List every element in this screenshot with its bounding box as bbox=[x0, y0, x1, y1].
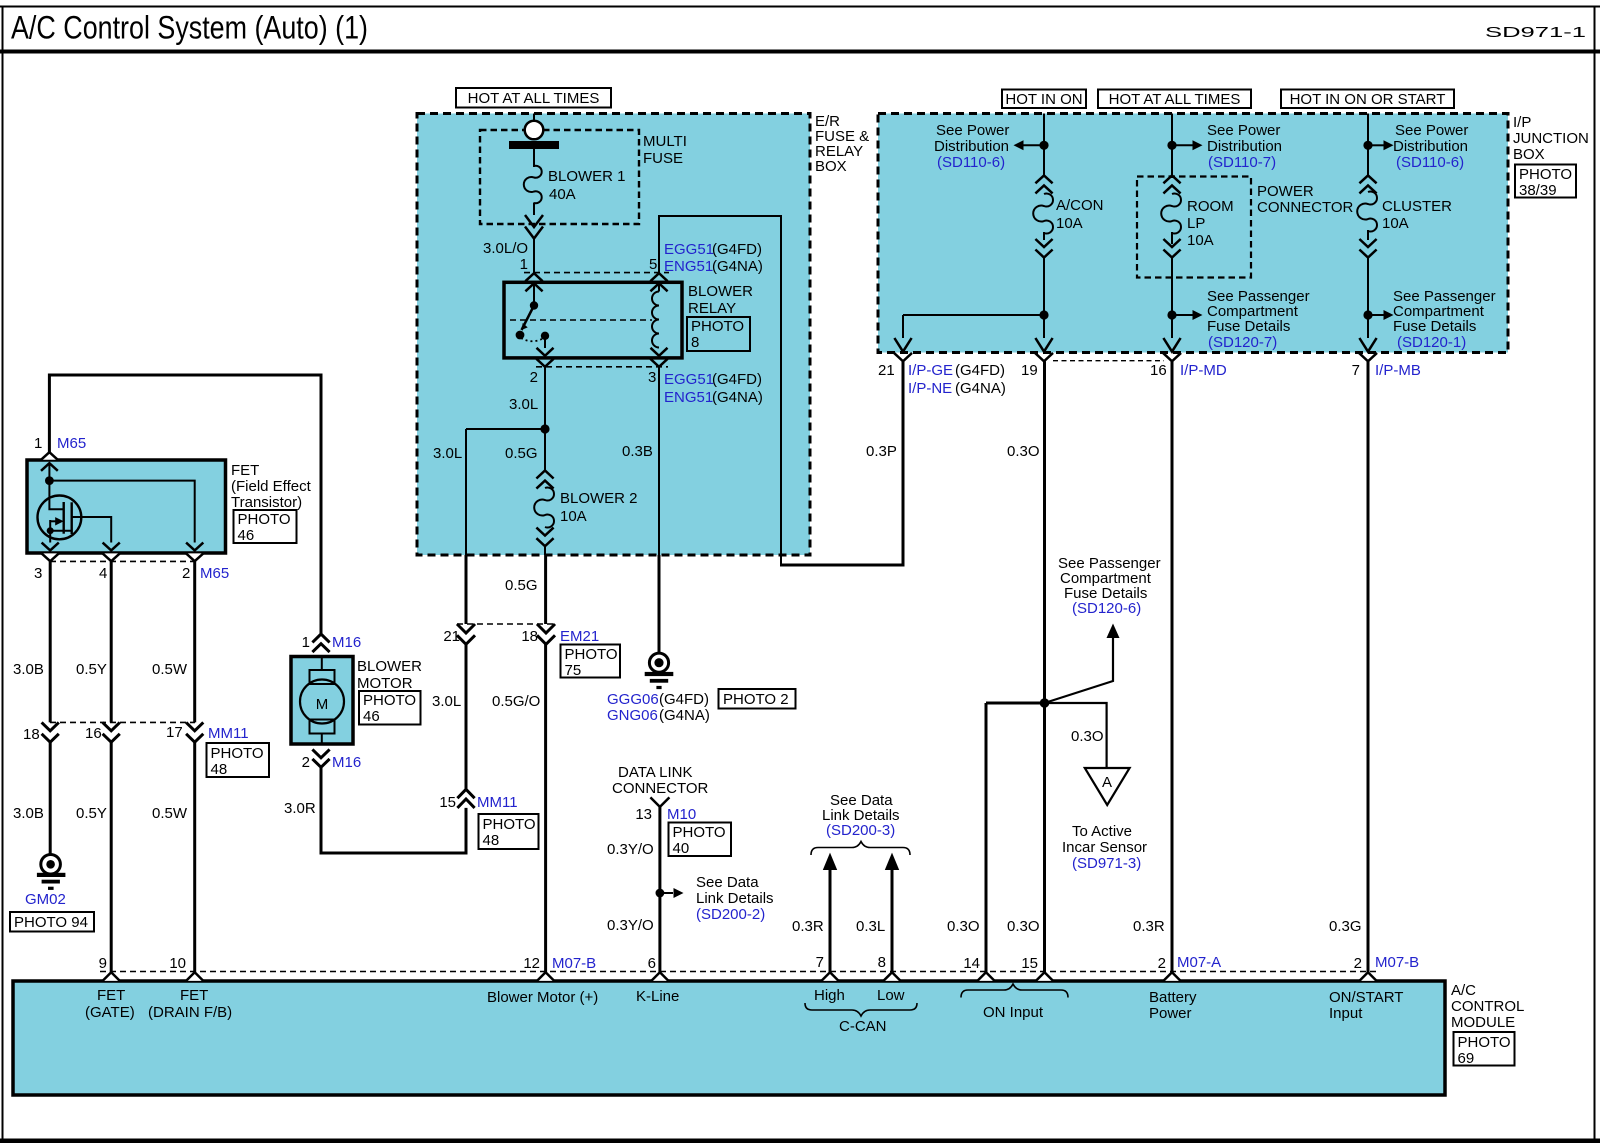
module connector dashed line bbox=[100, 971, 1378, 973]
branch wire to 3.0L left bbox=[466, 429, 545, 555]
wire source to pin 3 bbox=[49, 531, 51, 543]
svg-text:Distribution: Distribution bbox=[1393, 138, 1468, 155]
svg-text:FUSE: FUSE bbox=[643, 150, 683, 167]
svg-text:3: 3 bbox=[34, 565, 42, 582]
svg-text:BLOWER 1: BLOWER 1 bbox=[548, 168, 626, 185]
svg-text:Input: Input bbox=[1329, 1005, 1363, 1022]
wire 0.5Y upper bbox=[110, 561, 113, 722]
CLUSTER 10A label bbox=[1382, 198, 1452, 232]
svg-text:MM11: MM11 bbox=[477, 794, 518, 811]
svg-text:13: 13 bbox=[635, 806, 652, 823]
junction dot SD120-7 branch bbox=[1167, 310, 1176, 319]
wire on/start down bbox=[1367, 361, 1370, 972]
svg-text:Battery: Battery bbox=[1149, 989, 1197, 1006]
relay switch output arrowhead bbox=[537, 348, 554, 356]
svg-text:High: High bbox=[814, 987, 845, 1004]
svg-text:3.0L/O: 3.0L/O bbox=[483, 240, 528, 257]
relay switch common lead bbox=[533, 284, 535, 302]
relay pin 5 chevrons bbox=[650, 273, 667, 291]
connector 18 chevrons bbox=[42, 722, 59, 742]
gate feedback wire to pin 2 bbox=[49, 481, 194, 543]
svg-text:3.0R: 3.0R bbox=[284, 800, 316, 817]
PHOTO 75 box bbox=[561, 645, 621, 680]
svg-text:To Active: To Active bbox=[1072, 823, 1132, 840]
svg-text:0.3B: 0.3B bbox=[622, 443, 653, 460]
wire arrow to relay pin 1 bbox=[533, 239, 535, 274]
BLOWER 1 40A label bbox=[548, 168, 626, 203]
wire fuse to arrow bbox=[533, 203, 535, 216]
wire 3.0L between connectors bbox=[465, 644, 468, 789]
ground GGG06/GNG06 bbox=[645, 653, 674, 689]
mosfet channel bar bbox=[70, 502, 72, 534]
module pin 10 tent bbox=[186, 972, 203, 981]
wire 3.0B upper bbox=[49, 561, 52, 722]
svg-text:PHOTO: PHOTO bbox=[673, 824, 726, 841]
PHOTO 40 box bbox=[669, 823, 732, 858]
mosfet gate lead bbox=[49, 481, 63, 510]
svg-text:CLUSTER: CLUSTER bbox=[1382, 198, 1452, 215]
svg-text:CONTROL: CONTROL bbox=[1451, 998, 1524, 1015]
HOT AT ALL TIMES label box bbox=[456, 88, 611, 108]
svg-text:16: 16 bbox=[1150, 362, 1167, 379]
svg-text:3.0L: 3.0L bbox=[433, 445, 462, 462]
svg-text:Distribution: Distribution bbox=[1207, 138, 1282, 155]
svg-text:0.5G: 0.5G bbox=[505, 577, 538, 594]
svg-text:0.3Y/O: 0.3Y/O bbox=[607, 917, 654, 934]
wire bar to fuse coil bbox=[533, 149, 535, 167]
svg-text:2: 2 bbox=[1158, 955, 1166, 972]
connector 17 chevrons MM11 bbox=[186, 722, 203, 742]
wire relay pin2 down bbox=[544, 367, 546, 471]
svg-text:(SD110-7): (SD110-7) bbox=[1208, 154, 1276, 171]
svg-text:HOT AT ALL TIMES: HOT AT ALL TIMES bbox=[1109, 91, 1241, 108]
svg-text:BLOWER 2: BLOWER 2 bbox=[560, 490, 638, 507]
PHOTO 2 box bbox=[719, 689, 796, 709]
Battery Power label bbox=[1149, 989, 1197, 1022]
svg-text:Power: Power bbox=[1149, 1005, 1192, 1022]
svg-text:(G4NA): (G4NA) bbox=[659, 707, 710, 724]
fuse A/CON 10A coil bbox=[1033, 194, 1053, 234]
See Passenger Compartment SD120-1 label bbox=[1393, 288, 1496, 351]
I/P wire CLUSTER from top bbox=[1367, 114, 1369, 176]
svg-text:M16: M16 bbox=[332, 634, 361, 651]
svg-text:1: 1 bbox=[302, 634, 310, 651]
svg-text:MOTOR: MOTOR bbox=[357, 675, 413, 692]
fuse ROOM LP 10A coil bbox=[1161, 194, 1181, 234]
ON/START Input label bbox=[1329, 989, 1403, 1022]
wire K-line bbox=[658, 807, 661, 972]
svg-text:(SD200-3): (SD200-3) bbox=[826, 822, 895, 839]
junction dot on 0.5G wire bbox=[540, 424, 549, 433]
junction dot CLUSTER top bbox=[1363, 141, 1372, 150]
svg-text:46: 46 bbox=[238, 527, 255, 544]
see passenger arrow right 1 bbox=[1172, 310, 1203, 320]
wire horizontal link to 0.3P bbox=[780, 564, 903, 567]
wire from box top to node circle bbox=[533, 114, 535, 123]
MULTI FUSE label bbox=[643, 133, 687, 167]
svg-text:ROOM: ROOM bbox=[1187, 198, 1234, 215]
brace under High/Low bbox=[805, 1003, 917, 1016]
svg-text:10A: 10A bbox=[1187, 232, 1214, 249]
svg-text:(DRAIN F/B): (DRAIN F/B) bbox=[148, 1004, 232, 1021]
svg-text:M: M bbox=[316, 696, 329, 713]
wire 0.5Y to module bbox=[110, 742, 113, 972]
PHOTO 48 box for MM11 bbox=[479, 814, 539, 849]
wire A/CON down bbox=[1043, 258, 1045, 339]
see power distribution arrow right 2 bbox=[1368, 140, 1394, 150]
connector EGG51/ENG51 bottom label bbox=[664, 371, 763, 406]
SD120-6 arrow line bbox=[1045, 624, 1120, 704]
DATA LINK CONNECTOR label bbox=[612, 764, 709, 797]
svg-text:16: 16 bbox=[85, 725, 102, 742]
svg-text:RELAY: RELAY bbox=[688, 300, 736, 317]
svg-text:3: 3 bbox=[648, 369, 656, 386]
svg-text:19: 19 bbox=[1021, 362, 1038, 379]
svg-text:0.5Y: 0.5Y bbox=[76, 805, 107, 822]
POWER CONNECTOR label bbox=[1257, 183, 1354, 216]
connector row 21/18 dashed line bbox=[457, 623, 555, 625]
E/R FUSE & RELAY BOX (cyan dashed box) bbox=[417, 114, 810, 556]
BLOWER MOTOR box (cyan) bbox=[291, 657, 353, 745]
MULTI FUSE dashed box bbox=[480, 130, 639, 224]
svg-text:PHOTO: PHOTO bbox=[1519, 166, 1572, 183]
relay switch output lead bbox=[544, 336, 546, 348]
svg-text:DATA LINK: DATA LINK bbox=[618, 764, 692, 781]
svg-text:ON/START: ON/START bbox=[1329, 989, 1403, 1006]
svg-text:40A: 40A bbox=[549, 186, 576, 203]
junction dot k-line bbox=[656, 889, 665, 898]
connector row 18/16/17 dashed line bbox=[50, 721, 195, 723]
FET gate junction dot bbox=[45, 476, 54, 485]
relay switch lever arrowhead bbox=[522, 323, 528, 330]
See Data Link Details SD200-2 label bbox=[696, 874, 774, 923]
module pin 6 tent bbox=[651, 972, 668, 981]
svg-text:8: 8 bbox=[878, 954, 886, 971]
I/P wire ROOM LP from top bbox=[1171, 114, 1173, 179]
svg-text:ENG51: ENG51 bbox=[664, 389, 713, 406]
svg-text:(G4FD): (G4FD) bbox=[712, 241, 762, 258]
mosfet substrate link bbox=[49, 520, 51, 531]
svg-text:14: 14 bbox=[963, 955, 980, 972]
blower2 fuse top chevrons bbox=[536, 471, 553, 489]
fuse element bar bbox=[509, 141, 559, 149]
svg-text:SD971-1: SD971-1 bbox=[1485, 24, 1586, 41]
svg-text:0.3P: 0.3P bbox=[866, 443, 897, 460]
I/P JUNCTION BOX label bbox=[1513, 114, 1589, 163]
FET DRAIN module label bbox=[148, 987, 232, 1021]
svg-text:0.5Y: 0.5Y bbox=[76, 661, 107, 678]
svg-text:M10: M10 bbox=[667, 806, 696, 823]
relay coil bottom arrowhead bbox=[651, 348, 668, 356]
svg-text:1: 1 bbox=[520, 256, 528, 273]
svg-text:BLOWER: BLOWER bbox=[688, 283, 753, 300]
module pin 15 tent bbox=[1036, 972, 1053, 981]
see power distribution arrow right 1 bbox=[1172, 140, 1203, 150]
svg-text:CONNECTOR: CONNECTOR bbox=[1257, 199, 1354, 216]
ground GM02 bbox=[37, 855, 66, 890]
svg-text:(G4FD): (G4FD) bbox=[659, 691, 709, 708]
svg-text:HOT IN ON OR START: HOT IN ON OR START bbox=[1290, 91, 1446, 108]
svg-text:0.3O: 0.3O bbox=[1071, 728, 1104, 745]
connector 15 MM11 chevrons bbox=[457, 789, 474, 808]
svg-text:0.3O: 0.3O bbox=[947, 918, 980, 935]
branch wire to pin 21 bbox=[903, 315, 1044, 338]
See Power Distribution SD110-6 label bbox=[934, 122, 1009, 171]
svg-text:PHOTO: PHOTO bbox=[483, 816, 536, 833]
module pin 2 tent M07-A bbox=[1163, 972, 1180, 981]
svg-text:See Data: See Data bbox=[696, 874, 759, 891]
mosfet source dot bbox=[47, 527, 54, 534]
svg-text:Distribution: Distribution bbox=[934, 138, 1009, 155]
wire 0.5W to module bbox=[193, 742, 196, 972]
svg-text:BOX: BOX bbox=[1513, 146, 1545, 163]
svg-text:0.5G: 0.5G bbox=[505, 445, 538, 462]
relay switch pivot dot bbox=[530, 301, 538, 309]
A/C CONTROL MODULE label bbox=[1451, 982, 1524, 1031]
FET pin2 tent bbox=[186, 553, 203, 561]
mosfet source lead bbox=[50, 530, 71, 532]
svg-text:EGG51: EGG51 bbox=[664, 241, 714, 258]
svg-text:GM02: GM02 bbox=[25, 891, 66, 908]
svg-text:C-CAN: C-CAN bbox=[839, 1018, 887, 1035]
pin 21 exit tent bbox=[894, 353, 912, 361]
svg-text:CONNECTOR: CONNECTOR bbox=[612, 780, 709, 797]
svg-text:5: 5 bbox=[649, 256, 657, 273]
svg-text:21: 21 bbox=[878, 362, 895, 379]
dashed connector line relay bottom bbox=[536, 366, 668, 368]
wire 3.0B to ground bbox=[49, 742, 52, 854]
wire blower2 to box edge bbox=[544, 546, 546, 555]
FET pin2 arrowhead bbox=[186, 543, 203, 551]
wire pin3 below box to ground bbox=[658, 555, 661, 653]
svg-text:(G4NA): (G4NA) bbox=[712, 389, 763, 406]
connector 18 chevrons EM21 bbox=[537, 624, 555, 644]
E/R FUSE & RELAY BOX label bbox=[815, 113, 869, 175]
blower motor pin1 chevrons M16 bbox=[312, 634, 329, 652]
svg-text:MODULE: MODULE bbox=[1451, 1014, 1515, 1031]
FET GATE module label bbox=[85, 987, 135, 1021]
svg-text:A/CON: A/CON bbox=[1056, 197, 1104, 214]
svg-text:FET: FET bbox=[97, 987, 125, 1004]
svg-text:0.3O: 0.3O bbox=[1007, 918, 1040, 935]
svg-text:FET: FET bbox=[180, 987, 208, 1004]
PHOTO 46 box motor bbox=[359, 691, 421, 725]
A/C CONTROL MODULE box (cyan) bbox=[13, 981, 1445, 1095]
relay coil bbox=[652, 284, 659, 348]
svg-text:EGG51: EGG51 bbox=[664, 371, 714, 388]
PHOTO 46 box FET bbox=[234, 510, 297, 544]
svg-text:3.0B: 3.0B bbox=[13, 805, 44, 822]
relay switch lever bbox=[522, 306, 535, 331]
blower motor internals bbox=[300, 657, 344, 745]
svg-text:6: 6 bbox=[648, 955, 656, 972]
See Data Link Details SD200-3 label bbox=[822, 792, 900, 839]
svg-text:GGG06: GGG06 bbox=[607, 691, 659, 708]
module pin 14 tent bbox=[977, 972, 994, 981]
see passenger arrow right 2 bbox=[1368, 310, 1394, 320]
svg-text:A/C Control System (Auto) (1): A/C Control System (Auto) (1) bbox=[11, 10, 368, 46]
svg-text:PHOTO: PHOTO bbox=[565, 646, 618, 663]
wire ROOM LP down bbox=[1171, 258, 1173, 339]
FET box (cyan) bbox=[27, 460, 226, 553]
wire 3.0L below box bbox=[465, 555, 468, 624]
svg-text:MULTI: MULTI bbox=[643, 133, 687, 150]
transistor Q1 mosfet circle bbox=[38, 496, 82, 540]
wire battery power down bbox=[1171, 361, 1174, 972]
junction dot ROOM LP top bbox=[1167, 141, 1176, 150]
svg-text:(SD120-1): (SD120-1) bbox=[1397, 334, 1466, 351]
svg-text:M07-A: M07-A bbox=[1177, 954, 1221, 971]
relay switch contact dot left bbox=[516, 331, 525, 340]
svg-text:Transistor): Transistor) bbox=[231, 494, 302, 511]
svg-text:(Field Effect: (Field Effect bbox=[231, 478, 312, 495]
junction dot SD120-1 branch bbox=[1363, 310, 1372, 319]
svg-text:21: 21 bbox=[443, 628, 460, 645]
relay internal dashed line bbox=[510, 319, 652, 321]
See Power Distribution SD110-7 label bbox=[1207, 122, 1282, 171]
fuse CLUSTER top chevrons bbox=[1359, 175, 1376, 193]
svg-text:PHOTO: PHOTO bbox=[1458, 1034, 1511, 1051]
svg-text:M65: M65 bbox=[200, 565, 229, 582]
wire pin19 ON input down bbox=[1043, 361, 1046, 972]
svg-text:10A: 10A bbox=[1056, 215, 1083, 232]
pin 7 exit arrowhead bbox=[1359, 338, 1376, 352]
svg-text:A: A bbox=[1102, 774, 1112, 791]
To Active Incar Sensor label bbox=[1062, 823, 1147, 872]
pin 21 exit arrowhead bbox=[894, 338, 911, 352]
pin 16 exit arrowhead bbox=[1163, 338, 1180, 352]
FET pin3 arrowhead bbox=[42, 543, 59, 551]
svg-text:2: 2 bbox=[530, 369, 538, 386]
svg-text:0.5W: 0.5W bbox=[152, 805, 188, 822]
title separator bar bbox=[0, 50, 1600, 54]
svg-text:10: 10 bbox=[169, 955, 186, 972]
junction dot ON input bbox=[1040, 698, 1050, 708]
mosfet drain lead to pin 4 bbox=[72, 517, 112, 543]
branch wire to incar sensor bbox=[1045, 703, 1107, 768]
HOT IN ON label box bbox=[1002, 90, 1086, 109]
svg-text:Incar Sensor: Incar Sensor bbox=[1062, 839, 1147, 856]
FET label bbox=[231, 462, 312, 511]
svg-text:See Power: See Power bbox=[1207, 122, 1280, 139]
svg-text:48: 48 bbox=[483, 832, 500, 849]
module pin 2 tent M07-B bbox=[1359, 972, 1376, 981]
svg-text:15: 15 bbox=[1021, 955, 1038, 972]
branch wire to pin 14 bbox=[986, 703, 1045, 972]
wire relay pin3 to ground bbox=[658, 367, 660, 555]
svg-text:PHOTO 2: PHOTO 2 bbox=[723, 691, 789, 708]
svg-text:PHOTO: PHOTO bbox=[363, 692, 416, 709]
node circle at multi fuse bbox=[525, 121, 544, 140]
wire FET pin1 feed from top bbox=[49, 375, 321, 634]
svg-text:A/C: A/C bbox=[1451, 982, 1476, 999]
svg-text:Low: Low bbox=[877, 987, 905, 1004]
svg-text:Link Details: Link Details bbox=[696, 890, 774, 907]
svg-text:17: 17 bbox=[166, 724, 183, 741]
svg-text:BOX: BOX bbox=[815, 158, 847, 175]
svg-text:ON Input: ON Input bbox=[983, 1004, 1044, 1021]
svg-text:EM21: EM21 bbox=[560, 628, 599, 645]
svg-text:JUNCTION: JUNCTION bbox=[1513, 130, 1589, 147]
svg-text:M07-B: M07-B bbox=[552, 955, 596, 972]
HOT IN ON OR START label box bbox=[1281, 90, 1454, 109]
svg-text:PHOTO 94: PHOTO 94 bbox=[14, 914, 88, 931]
svg-text:See Power: See Power bbox=[936, 122, 1009, 139]
svg-text:18: 18 bbox=[521, 628, 538, 645]
wire 0.3P vertical bbox=[902, 361, 905, 567]
svg-text:48: 48 bbox=[211, 761, 228, 778]
A/CON 10A label bbox=[1056, 197, 1104, 232]
I/P-GE I/P-NE connector label bbox=[908, 362, 1006, 397]
svg-text:38/39: 38/39 bbox=[1519, 182, 1557, 199]
svg-text:0.3Y/O: 0.3Y/O bbox=[607, 841, 654, 858]
c-can high arrow bbox=[823, 853, 837, 973]
svg-text:0.3R: 0.3R bbox=[792, 918, 824, 935]
svg-text:See Power: See Power bbox=[1395, 122, 1468, 139]
svg-text:1: 1 bbox=[34, 435, 42, 452]
svg-text:2: 2 bbox=[1354, 955, 1362, 972]
See Passenger Compartment SD120-7 label bbox=[1207, 288, 1310, 351]
HOT AT ALL TIMES label box 2 bbox=[1098, 90, 1251, 109]
svg-text:Fuse Details: Fuse Details bbox=[1207, 318, 1290, 335]
see power distribution arrow left bbox=[1014, 140, 1045, 150]
fuse BLOWER 2 10A coil bbox=[534, 488, 554, 528]
FET pin4 tent bbox=[103, 553, 120, 561]
svg-text:(GATE): (GATE) bbox=[85, 1004, 135, 1021]
pin 19 exit tent bbox=[1035, 353, 1053, 361]
svg-text:(SD971-3): (SD971-3) bbox=[1072, 855, 1141, 872]
svg-text:40: 40 bbox=[673, 840, 690, 857]
svg-text:75: 75 bbox=[565, 662, 582, 679]
junction dot A/CON top bbox=[1039, 141, 1048, 150]
svg-text:(G4NA): (G4NA) bbox=[712, 258, 763, 275]
svg-text:HOT IN ON: HOT IN ON bbox=[1005, 91, 1082, 108]
wire relay pin5 up and over to 0.3P bbox=[658, 215, 781, 565]
BLOWER RELAY label bbox=[688, 283, 753, 317]
svg-text:HOT AT ALL TIMES: HOT AT ALL TIMES bbox=[468, 90, 600, 107]
svg-text:K-Line: K-Line bbox=[636, 988, 679, 1005]
dashed connector line FET bottom bbox=[50, 560, 195, 562]
svg-text:3.0L: 3.0L bbox=[432, 693, 461, 710]
svg-text:MM11: MM11 bbox=[208, 725, 249, 742]
BLOWER 2 10A label bbox=[560, 490, 638, 525]
module pin 12 tent bbox=[537, 972, 554, 981]
PHOTO 8 box bbox=[687, 317, 750, 351]
wire CLUSTER down bbox=[1367, 258, 1369, 339]
svg-text:(G4NA): (G4NA) bbox=[955, 380, 1006, 397]
svg-text:PHOTO: PHOTO bbox=[238, 511, 291, 528]
junction dot 0.3P branch bbox=[1039, 310, 1048, 319]
svg-text:10A: 10A bbox=[560, 508, 587, 525]
ROOM LP 10A label bbox=[1187, 198, 1234, 249]
svg-text:69: 69 bbox=[1458, 1050, 1475, 1067]
PHOTO 48 box for MM11 2 bbox=[207, 743, 270, 778]
svg-text:7: 7 bbox=[816, 954, 824, 971]
FET pin4 arrowhead bbox=[103, 543, 120, 551]
svg-text:M16: M16 bbox=[332, 754, 361, 771]
wire 0.5G below box bbox=[544, 555, 547, 624]
svg-text:(SD120-7): (SD120-7) bbox=[1208, 334, 1277, 351]
svg-text:I/P-MB: I/P-MB bbox=[1375, 362, 1421, 379]
svg-text:M65: M65 bbox=[57, 435, 86, 452]
connector 21 chevrons bbox=[457, 624, 475, 644]
svg-text:7: 7 bbox=[1352, 362, 1360, 379]
svg-text:(G4FD): (G4FD) bbox=[712, 371, 762, 388]
pin 16 exit tent bbox=[1163, 353, 1181, 361]
wire 0.5W upper bbox=[193, 561, 196, 722]
svg-text:Blower Motor (+): Blower Motor (+) bbox=[487, 989, 598, 1006]
FET pin1 inner chevron bbox=[41, 463, 58, 471]
